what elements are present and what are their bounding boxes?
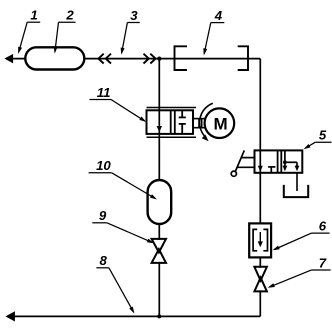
svg-text:3: 3 [130,8,138,23]
svg-text:7: 7 [319,255,327,270]
svg-text:5: 5 [319,128,327,143]
svg-text:8: 8 [100,253,108,268]
svg-text:2: 2 [65,8,74,23]
svg-text:11: 11 [97,85,111,100]
svg-text:6: 6 [319,219,327,234]
svg-text:4: 4 [214,8,223,23]
svg-text:1: 1 [30,8,37,23]
svg-text:9: 9 [99,208,107,223]
svg-text:M: M [214,114,228,133]
svg-text:10: 10 [96,158,111,173]
